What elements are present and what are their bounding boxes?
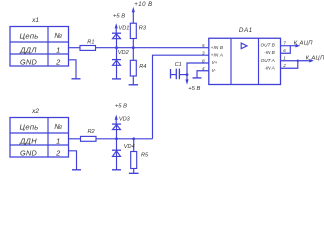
svg-text:DA1: DA1 (239, 27, 253, 34)
svg-text:3: 3 (202, 51, 205, 56)
svg-text:5: 5 (202, 43, 205, 48)
wire X1 pin1 to R1 (69, 47, 81, 49)
svg-text:OUT B: OUT B (260, 42, 274, 47)
svg-text:6: 6 (283, 48, 286, 53)
wire IC pin7 output (281, 45, 297, 47)
wire X1 pin2 to ground (69, 60, 77, 79)
connector X1 labels (19, 17, 62, 67)
svg-text:ДДН: ДДН (19, 136, 37, 145)
svg-text:-IN B: -IN B (264, 50, 275, 55)
svg-text:R4: R4 (139, 64, 146, 70)
svg-text:7: 7 (283, 41, 286, 46)
wire IC pin2 feedback (281, 61, 298, 69)
+10 V arrow (R3) (132, 7, 135, 23)
node R3/R4 (132, 46, 135, 49)
svg-text:К АЦП: К АЦП (294, 41, 314, 47)
svg-text:+10 В: +10 В (134, 2, 152, 8)
wire IC pin4 to ground (197, 71, 209, 78)
connector X2 table (10, 118, 69, 158)
svg-text:GND: GND (20, 148, 37, 157)
+5 V arrow (VD3) (115, 115, 118, 125)
svg-text:1: 1 (56, 137, 60, 146)
svg-text:8: 8 (202, 58, 205, 63)
wire R1 to IC pin5 (96, 47, 209, 49)
op-amp DA1 box (209, 38, 281, 84)
wire node to IC pin8 (187, 63, 209, 75)
wire VD4 to ground (116, 156, 118, 169)
wire R3 to node (132, 39, 134, 48)
node R5 (132, 137, 135, 140)
ground (72, 78, 81, 80)
wire X2 pin2 to ground (69, 151, 77, 170)
svg-text:+5 В: +5 В (188, 86, 200, 92)
resistor R2 (81, 136, 97, 141)
svg-text:-IN A: -IN A (264, 65, 275, 70)
wire VD2 to ground (116, 65, 118, 79)
svg-text:R5: R5 (141, 152, 149, 158)
resistor R5 (131, 139, 137, 174)
svg-text:2: 2 (282, 63, 286, 68)
svg-text:R3: R3 (139, 26, 147, 32)
svg-text:V-: V- (212, 68, 217, 73)
svg-text:C1: C1 (175, 62, 182, 68)
wire R2 to riser (96, 138, 153, 140)
diode VD4 (112, 139, 121, 157)
wire IC pin1 output (281, 60, 310, 62)
resistor R4 (130, 48, 136, 85)
resistor R3 (130, 23, 136, 38)
svg-text:1: 1 (56, 46, 60, 55)
wire IC pin6 feedback (281, 46, 291, 54)
node C1/V+ (186, 73, 189, 76)
svg-text:VD4: VD4 (124, 144, 135, 150)
svg-text:R1: R1 (87, 40, 94, 46)
ground (112, 78, 121, 80)
ground (129, 84, 139, 86)
svg-text:OUT A: OUT A (261, 58, 275, 63)
svg-text:2: 2 (55, 58, 61, 67)
svg-text:+IN B: +IN B (211, 45, 224, 50)
svg-text:V+: V+ (212, 60, 218, 65)
wire X2 pin1 to R2 (69, 138, 81, 140)
wire riser to IC pin3 (153, 55, 209, 139)
+5 V arrow (VD1) (115, 23, 118, 33)
ground (112, 169, 121, 171)
diode VD3 (112, 124, 121, 139)
svg-text:ДДЛ: ДДЛ (19, 45, 37, 54)
connector X1 table (10, 27, 69, 67)
svg-text:Цепь: Цепь (19, 32, 38, 41)
ground (193, 77, 202, 79)
diode VD2 (112, 48, 121, 66)
svg-text:+IN A: +IN A (211, 52, 223, 57)
svg-text:VD3: VD3 (119, 117, 131, 123)
svg-text:2: 2 (55, 149, 61, 158)
node VD1/VD2 (115, 46, 118, 49)
capacitor C1 (171, 69, 188, 80)
svg-text:+5 В: +5 В (113, 13, 125, 19)
svg-text:Цепь: Цепь (19, 123, 38, 132)
svg-text:4: 4 (202, 66, 205, 71)
svg-text:+5 В: +5 В (115, 104, 127, 110)
svg-text:GND: GND (20, 57, 37, 66)
op-amp triangle symbol (241, 43, 247, 49)
svg-text:VD2: VD2 (118, 50, 130, 56)
svg-text:1: 1 (283, 55, 286, 60)
node VD3/VD4 (115, 137, 118, 140)
svg-text:№: № (54, 122, 62, 131)
svg-text:х1: х1 (31, 17, 39, 24)
ground (129, 172, 139, 174)
diode VD1 (112, 33, 121, 48)
svg-text:№: № (54, 31, 62, 40)
svg-text:К АЦП: К АЦП (306, 55, 324, 61)
svg-text:х2: х2 (31, 108, 39, 115)
resistor R1 (80, 46, 96, 51)
svg-text:VD1: VD1 (119, 26, 130, 32)
connector X2 labels (19, 108, 62, 158)
labels (black italic) (87, 2, 324, 158)
ground (72, 169, 81, 171)
svg-text:R2: R2 (88, 129, 96, 135)
+5 V arrow down (185, 75, 188, 85)
